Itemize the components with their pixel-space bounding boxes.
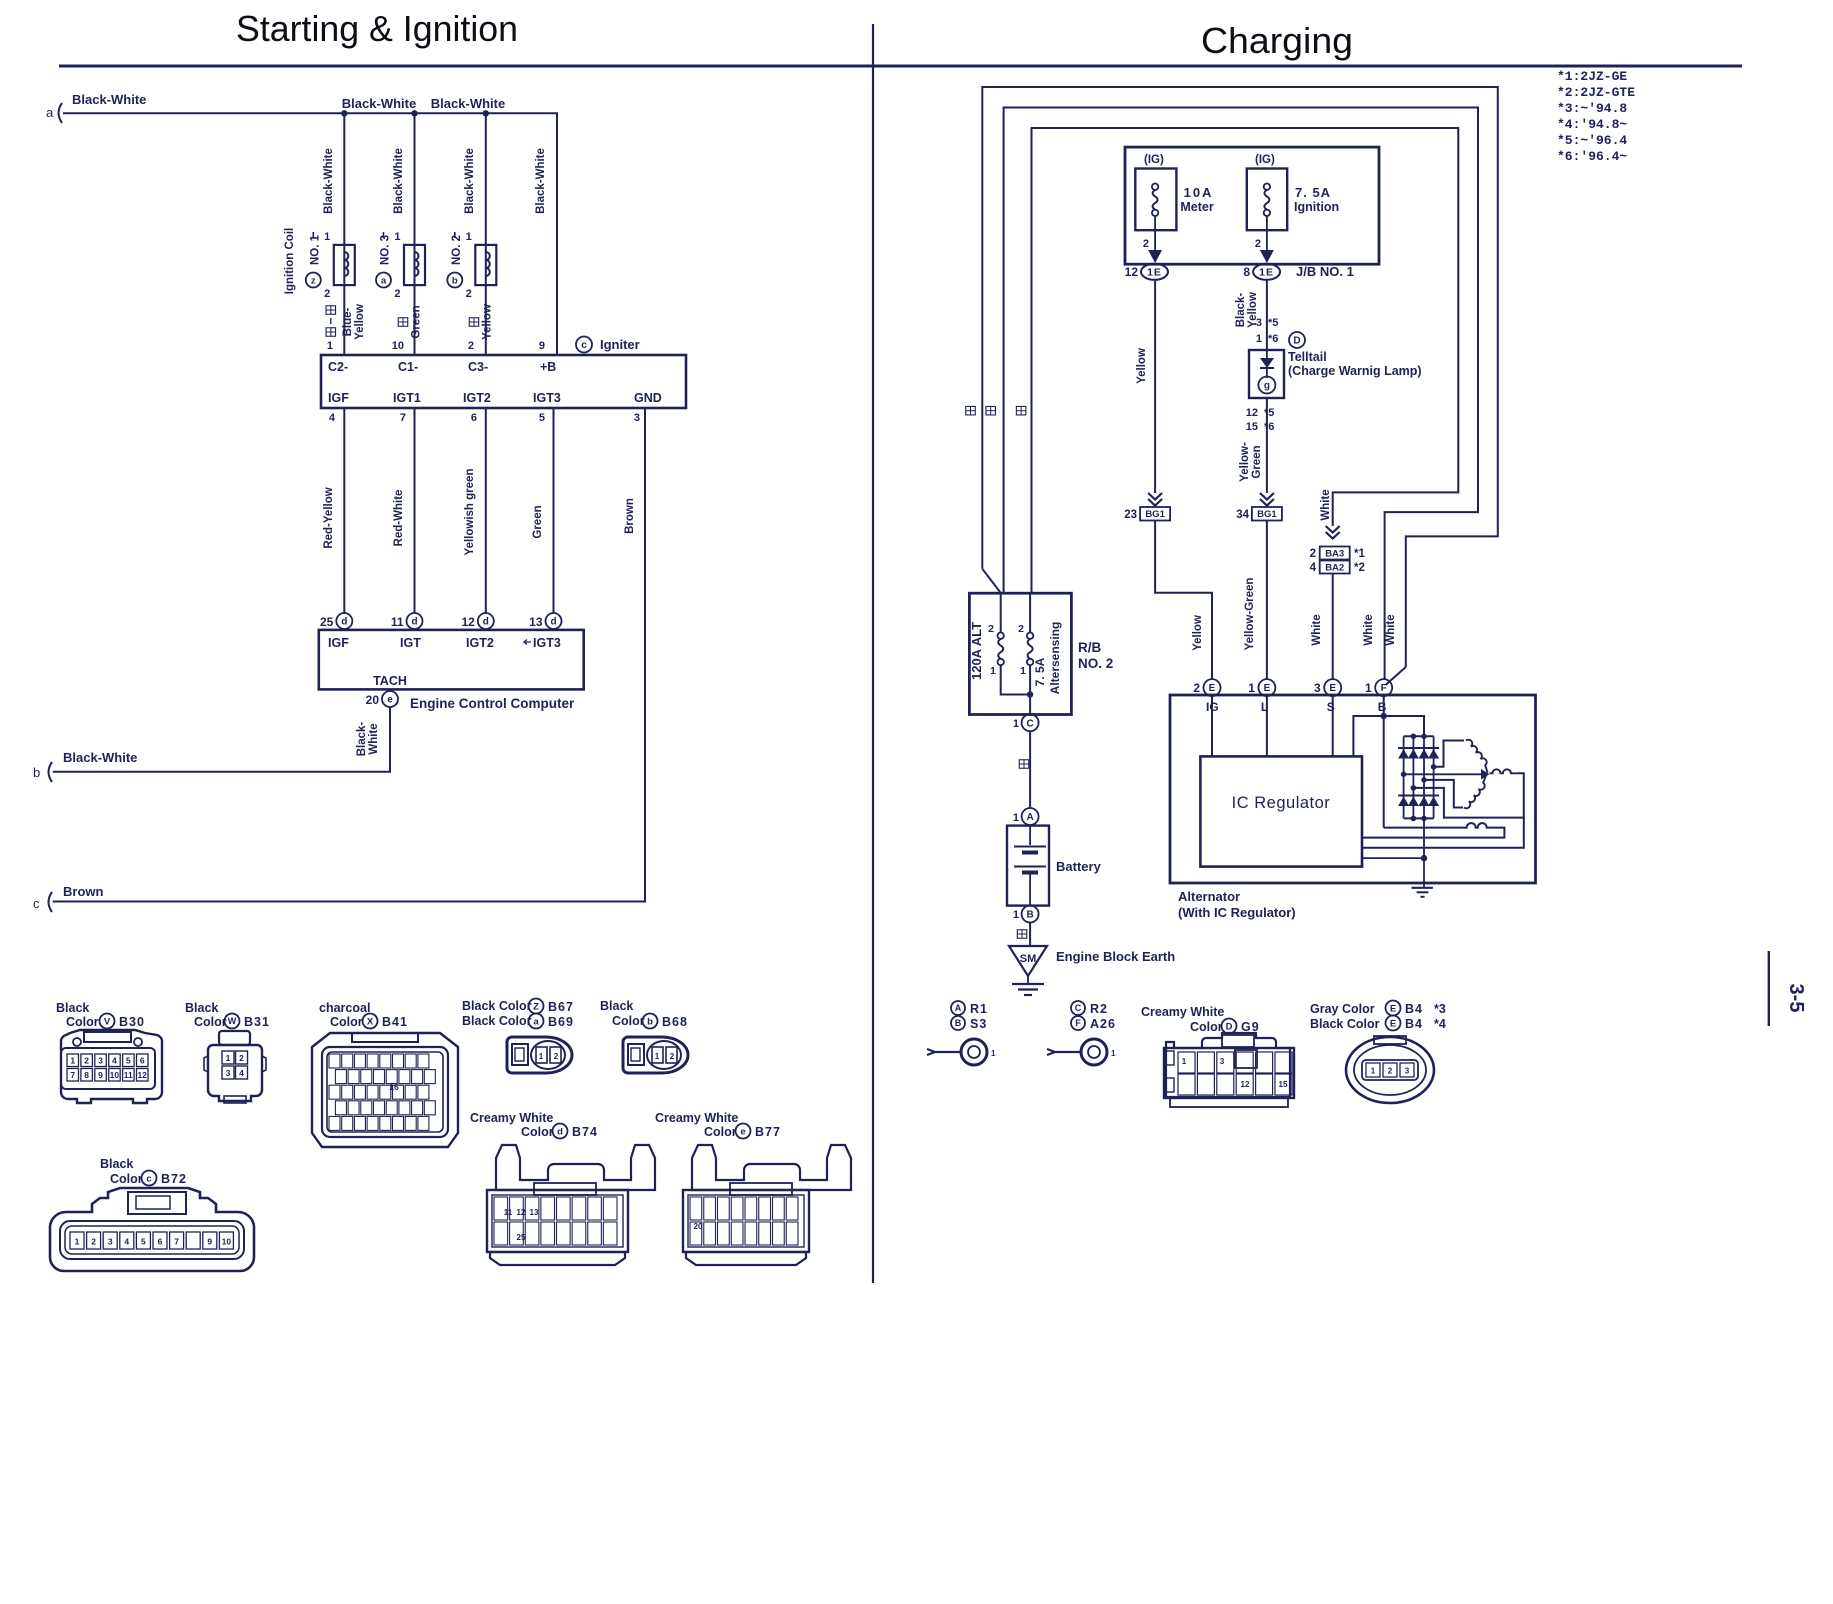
svg-text:E: E bbox=[1329, 683, 1336, 694]
wire bus a bbox=[63, 113, 557, 355]
svg-text:b: b bbox=[33, 765, 40, 780]
junction a1 bbox=[341, 110, 347, 116]
rectifier column 3 bbox=[1423, 736, 1425, 818]
field rotor coil bbox=[1362, 823, 1504, 838]
connector B67/B69 body bbox=[507, 1037, 572, 1073]
svg-text:*5: *5 bbox=[1264, 407, 1274, 419]
svg-text:Ignition Coil: Ignition Coil bbox=[284, 228, 296, 294]
label Black-Yellow bbox=[1235, 292, 1259, 328]
svg-text:3: 3 bbox=[1405, 1067, 1410, 1076]
svg-text:IGT1: IGT1 bbox=[393, 391, 421, 405]
svg-text:2: 2 bbox=[91, 1237, 96, 1247]
junction a2 bbox=[411, 110, 417, 116]
svg-text:E: E bbox=[1390, 1018, 1396, 1029]
svg-text:Yellow: Yellow bbox=[482, 304, 494, 340]
svg-text:1: 1 bbox=[394, 231, 400, 243]
svg-text:b: b bbox=[452, 275, 458, 286]
alternator pin 1F terminal B bbox=[1365, 679, 1392, 714]
svg-text:Brown: Brown bbox=[63, 884, 104, 899]
connector B30 bbox=[61, 1030, 162, 1103]
svg-text:D: D bbox=[1226, 1021, 1233, 1032]
wire B internal bbox=[1383, 696, 1385, 716]
svg-text:Yellow: Yellow bbox=[354, 304, 366, 340]
junction ground bbox=[1421, 855, 1427, 861]
svg-text:1: 1 bbox=[226, 1053, 231, 1063]
svg-text:BG1: BG1 bbox=[1145, 509, 1165, 520]
svg-text:9: 9 bbox=[539, 340, 545, 352]
harness loop inner bbox=[1032, 128, 1459, 593]
stator phase A path bbox=[1434, 741, 1464, 767]
svg-text:Meter: Meter bbox=[1180, 200, 1213, 214]
svg-text:20: 20 bbox=[366, 693, 380, 707]
svg-text:c: c bbox=[146, 1173, 151, 1184]
wire coil1 feed bbox=[343, 113, 345, 355]
svg-text:4: 4 bbox=[329, 412, 336, 424]
igniter pin labels bottom row bbox=[328, 391, 662, 405]
svg-text:1: 1 bbox=[539, 1052, 544, 1061]
connector 4 BA2 *2 bbox=[1310, 561, 1365, 575]
svg-text:2: 2 bbox=[84, 1056, 89, 1066]
kanji black tag 1 bbox=[1019, 760, 1029, 769]
svg-text:Black: Black bbox=[185, 1001, 218, 1015]
connector B4 label bbox=[1310, 1001, 1446, 1032]
svg-text:R/B: R/B bbox=[1078, 640, 1102, 655]
wire jog outer to fuse ALT bbox=[982, 569, 1000, 593]
diode upper 2 bbox=[1408, 748, 1419, 759]
node a bracket bbox=[46, 103, 62, 123]
svg-text:charcoal: charcoal bbox=[319, 1001, 370, 1015]
svg-text:g: g bbox=[1264, 381, 1270, 392]
svg-text:6: 6 bbox=[158, 1237, 163, 1247]
svg-text:12: 12 bbox=[1241, 1080, 1250, 1089]
wire telltail down yellow-green bbox=[1266, 398, 1268, 493]
svg-text:Color: Color bbox=[521, 1125, 554, 1139]
svg-text:Black-White: Black-White bbox=[63, 750, 137, 765]
wire GND brown bbox=[53, 408, 645, 902]
svg-text:10: 10 bbox=[110, 1070, 120, 1080]
label R/B NO. 2 bbox=[1078, 640, 1113, 671]
svg-text:+B: +B bbox=[540, 360, 556, 374]
svg-text:Z: Z bbox=[533, 1001, 539, 1012]
svg-text:z: z bbox=[311, 275, 316, 286]
svg-text:D: D bbox=[1293, 336, 1300, 347]
svg-text:Engine Block Earth: Engine Block Earth bbox=[1056, 949, 1175, 964]
svg-text:d: d bbox=[341, 617, 347, 628]
rectifier column 1 bbox=[1403, 736, 1405, 818]
fuse 7.5A Altersensing bbox=[1018, 593, 1033, 715]
svg-text:R1: R1 bbox=[970, 1002, 988, 1016]
connector B68 label bbox=[600, 999, 688, 1029]
svg-text:11: 11 bbox=[504, 1208, 513, 1217]
svg-text:Color: Color bbox=[1190, 1020, 1223, 1034]
connector 1 C bbox=[1013, 714, 1039, 731]
svg-text:Black Color: Black Color bbox=[462, 999, 532, 1013]
node b bracket bbox=[33, 762, 52, 782]
wire color kanji green bbox=[398, 318, 408, 327]
svg-text:d: d bbox=[483, 617, 489, 628]
IC Regulator box bbox=[1200, 756, 1362, 866]
connector B68 body bbox=[623, 1037, 688, 1073]
diode upper 3 bbox=[1419, 748, 1430, 759]
svg-text:23: 23 bbox=[1124, 509, 1137, 521]
svg-text:X: X bbox=[367, 1016, 374, 1027]
svg-text:7. 5A: 7. 5A bbox=[1033, 657, 1047, 686]
alternator pin 3E terminal S bbox=[1314, 679, 1341, 714]
svg-text:Starting & Ignition: Starting & Ignition bbox=[236, 8, 518, 49]
svg-text:a: a bbox=[381, 275, 387, 286]
connector G9 bbox=[1164, 1033, 1294, 1107]
ring terminal R1/S3 bbox=[927, 1039, 996, 1065]
connector B31 bbox=[204, 1031, 266, 1103]
svg-text:(With IC Regulator): (With IC Regulator) bbox=[1178, 905, 1296, 920]
stator phase C tap bbox=[1411, 785, 1417, 791]
svg-text:F: F bbox=[1075, 1018, 1081, 1028]
svg-text:*3:~'94.8: *3:~'94.8 bbox=[1557, 101, 1627, 116]
svg-text:1E: 1E bbox=[1147, 266, 1162, 278]
svg-text:5: 5 bbox=[126, 1056, 131, 1066]
junction bottom bus 2 bbox=[1411, 816, 1417, 822]
svg-text:4: 4 bbox=[112, 1056, 117, 1066]
coil NO. 1 designator bbox=[306, 232, 322, 288]
svg-text:1: 1 bbox=[327, 340, 333, 352]
svg-text:IC Regulator: IC Regulator bbox=[1232, 794, 1331, 812]
svg-text:1: 1 bbox=[70, 1056, 75, 1066]
svg-text:Altersensing: Altersensing bbox=[1048, 622, 1062, 695]
svg-text:NO. 2: NO. 2 bbox=[1078, 656, 1113, 671]
wire IGT2 bbox=[485, 408, 487, 613]
svg-text:Battery: Battery bbox=[1056, 859, 1102, 874]
svg-text:(IG): (IG) bbox=[1144, 154, 1164, 166]
svg-text:2: 2 bbox=[1310, 548, 1316, 560]
svg-text:E: E bbox=[1390, 1003, 1396, 1014]
connector 2 BA3 *1 bbox=[1310, 526, 1366, 560]
svg-text:2: 2 bbox=[466, 288, 472, 300]
stator neutral arrowhead bbox=[1481, 769, 1490, 780]
alternator pin 1E terminal L bbox=[1248, 679, 1275, 714]
svg-text:B41: B41 bbox=[382, 1015, 408, 1029]
svg-text:*4:'94.8~: *4:'94.8~ bbox=[1557, 117, 1627, 132]
ECU pin labels bbox=[328, 636, 561, 650]
ECU pin 12 connector d bbox=[461, 613, 493, 629]
wire outer diagonal to F bbox=[1386, 667, 1406, 685]
svg-text:1: 1 bbox=[1013, 718, 1019, 730]
svg-text:(Charge Warnig Lamp): (Charge Warnig Lamp) bbox=[1288, 364, 1422, 378]
svg-text:1: 1 bbox=[1020, 665, 1026, 677]
svg-text:Charging: Charging bbox=[1201, 20, 1353, 61]
connector B30 label bbox=[56, 1001, 145, 1029]
svg-text:R2: R2 bbox=[1090, 1002, 1108, 1016]
svg-text:Red-White: Red-White bbox=[393, 490, 405, 547]
svg-text:B30: B30 bbox=[119, 1015, 145, 1029]
alternator box bbox=[1170, 695, 1536, 883]
wire C to A black bbox=[1029, 731, 1031, 808]
svg-text:J/B NO. 1: J/B NO. 1 bbox=[1296, 264, 1354, 279]
connector B67 B69 label bbox=[462, 999, 574, 1030]
svg-text:3: 3 bbox=[108, 1237, 113, 1247]
svg-text:9: 9 bbox=[98, 1070, 103, 1080]
svg-text:25: 25 bbox=[320, 615, 334, 629]
wire IGF bbox=[343, 408, 345, 613]
svg-text:Green: Green bbox=[411, 305, 423, 338]
svg-text:Yellowish green: Yellowish green bbox=[464, 469, 476, 556]
svg-text:NO. 3: NO. 3 bbox=[380, 235, 392, 265]
svg-text:34: 34 bbox=[1236, 509, 1249, 521]
svg-text:2: 2 bbox=[394, 288, 400, 300]
wire L internal bbox=[1266, 696, 1268, 756]
label Yellow-Green upper bbox=[1239, 442, 1263, 482]
svg-text:3: 3 bbox=[98, 1056, 103, 1066]
svg-text:3: 3 bbox=[1256, 317, 1262, 329]
fuse 10A Meter bbox=[1135, 154, 1214, 263]
wire IGT1 bbox=[414, 408, 416, 613]
svg-text:8: 8 bbox=[1243, 265, 1250, 279]
svg-text:1: 1 bbox=[1371, 1067, 1376, 1076]
svg-text:Black-White: Black-White bbox=[72, 92, 146, 107]
svg-text:IGT2: IGT2 bbox=[463, 391, 491, 405]
svg-text:e: e bbox=[387, 695, 393, 706]
svg-text:13: 13 bbox=[529, 615, 543, 629]
svg-text:BA3: BA3 bbox=[1325, 548, 1344, 559]
coil NO. 2 designator bbox=[447, 232, 463, 288]
fuse 7.5A Ignition bbox=[1247, 154, 1339, 263]
svg-text:GND: GND bbox=[634, 391, 662, 405]
connector B72 bbox=[50, 1188, 254, 1271]
rectifier top bus bbox=[1404, 735, 1434, 737]
svg-text:d: d bbox=[550, 617, 556, 628]
svg-text:B: B bbox=[955, 1018, 962, 1028]
telltail charge warning lamp bbox=[1249, 350, 1284, 398]
svg-text:*1: *1 bbox=[1354, 548, 1365, 560]
ring terminal R2/A26 bbox=[1047, 1039, 1116, 1065]
svg-text:B4: B4 bbox=[1405, 1002, 1423, 1016]
junction a3 bbox=[483, 110, 489, 116]
junction top bus 2 bbox=[1411, 734, 1417, 740]
svg-text:c: c bbox=[581, 340, 587, 351]
svg-text:1: 1 bbox=[1013, 909, 1019, 921]
svg-text:15: 15 bbox=[1246, 421, 1258, 433]
stator phase A tap bbox=[1431, 764, 1437, 770]
ECU pin 25 connector d bbox=[320, 613, 352, 629]
svg-text:e: e bbox=[740, 1126, 745, 1137]
svg-text:25: 25 bbox=[517, 1233, 526, 1242]
svg-text:White: White bbox=[1385, 614, 1397, 645]
stator coil phase C bbox=[1490, 769, 1518, 773]
svg-text:15: 15 bbox=[1279, 1080, 1288, 1089]
harness loop outer bbox=[982, 87, 1498, 667]
svg-text:1: 1 bbox=[1256, 333, 1262, 345]
svg-text:12: 12 bbox=[1246, 407, 1258, 419]
rectifier bottom bus bbox=[1404, 817, 1434, 819]
svg-text:120A ALT: 120A ALT bbox=[969, 622, 984, 680]
svg-text:2: 2 bbox=[239, 1053, 244, 1063]
svg-text:10A: 10A bbox=[1184, 185, 1214, 200]
svg-text:9: 9 bbox=[207, 1237, 212, 1247]
svg-text:SM: SM bbox=[1020, 953, 1037, 965]
svg-text:Color: Color bbox=[66, 1015, 99, 1029]
connector B72 label bbox=[100, 1157, 187, 1186]
connector 34 BG1 bbox=[1236, 493, 1282, 521]
svg-text:b: b bbox=[647, 1016, 653, 1027]
svg-text:Black: Black bbox=[100, 1157, 133, 1171]
svg-text:A26: A26 bbox=[1090, 1017, 1116, 1031]
svg-text:1: 1 bbox=[1248, 681, 1255, 695]
svg-text:Color: Color bbox=[330, 1015, 363, 1029]
ground symbol engine earth bbox=[1012, 976, 1044, 995]
svg-text:B: B bbox=[1378, 700, 1387, 714]
svg-text:2: 2 bbox=[1018, 623, 1024, 635]
kanji white tags on harness bbox=[966, 406, 1026, 415]
svg-text:12: 12 bbox=[1125, 265, 1139, 279]
label Black-White vertical at b bbox=[356, 722, 380, 757]
wire meter yellow bbox=[1154, 280, 1156, 493]
svg-text:3: 3 bbox=[1314, 681, 1321, 695]
svg-text:White: White bbox=[1320, 489, 1332, 520]
svg-text:d: d bbox=[557, 1126, 563, 1137]
svg-text:IGF: IGF bbox=[328, 636, 349, 650]
connector G9 label bbox=[1141, 1005, 1260, 1034]
svg-text:1: 1 bbox=[1182, 1057, 1187, 1066]
svg-text:*3: *3 bbox=[1434, 1002, 1446, 1016]
svg-text:White: White bbox=[1311, 614, 1323, 645]
svg-text:2: 2 bbox=[670, 1052, 675, 1061]
svg-text:1: 1 bbox=[655, 1052, 660, 1061]
connector 23 BG1 bbox=[1124, 493, 1170, 521]
svg-text:10: 10 bbox=[222, 1237, 232, 1247]
junction top bus 3 bbox=[1421, 734, 1427, 740]
wire S internal bbox=[1332, 696, 1334, 756]
engine block earth triangle SM bbox=[1009, 946, 1047, 976]
svg-text:2: 2 bbox=[1143, 238, 1149, 250]
ignition coil NO. 2 (connector b) bbox=[475, 245, 496, 285]
wire coil2 feed bbox=[414, 113, 416, 355]
igniter U1 box bbox=[321, 355, 686, 408]
connector B77 bbox=[683, 1145, 851, 1265]
svg-text:13: 13 bbox=[530, 1208, 539, 1217]
svg-text:Black Color: Black Color bbox=[462, 1014, 532, 1028]
svg-text:12: 12 bbox=[461, 615, 475, 629]
svg-text:B72: B72 bbox=[161, 1172, 187, 1186]
svg-text:F: F bbox=[1381, 683, 1387, 694]
junction B bbox=[1381, 713, 1387, 719]
diode lower 3 bbox=[1419, 796, 1430, 807]
svg-text:B69: B69 bbox=[548, 1015, 574, 1029]
ECU box Engine Control Computer bbox=[319, 630, 584, 690]
svg-text:S3: S3 bbox=[970, 1017, 987, 1031]
svg-text:2: 2 bbox=[554, 1052, 559, 1061]
svg-text:2: 2 bbox=[1193, 681, 1200, 695]
svg-text:Black Color: Black Color bbox=[1310, 1017, 1380, 1031]
svg-text:4: 4 bbox=[124, 1237, 129, 1247]
svg-text:2: 2 bbox=[468, 340, 474, 352]
svg-text:E: E bbox=[1209, 683, 1216, 694]
svg-text:Creamy White: Creamy White bbox=[655, 1111, 738, 1125]
svg-text:E: E bbox=[1264, 683, 1271, 694]
svg-text:*2: *2 bbox=[1354, 562, 1365, 574]
telltail pin 12 *5 bbox=[1246, 407, 1275, 419]
svg-text:a: a bbox=[46, 105, 54, 120]
telltail pin 3 *5 bbox=[1256, 317, 1279, 329]
ring terminal C R2 F A26 label bbox=[1071, 1001, 1116, 1031]
svg-text:*6: *6 bbox=[1264, 421, 1274, 433]
svg-text:10: 10 bbox=[392, 340, 404, 352]
svg-text:B: B bbox=[1026, 910, 1033, 921]
wire BG1 to alternator L bbox=[1266, 521, 1268, 680]
svg-text:Telltail: Telltail bbox=[1288, 350, 1327, 364]
connector B4 bbox=[1346, 1036, 1434, 1103]
top rule bbox=[59, 65, 1742, 68]
svg-text:NO. 2: NO. 2 bbox=[451, 235, 463, 265]
ignition coil NO. 3 (connector a) bbox=[404, 245, 425, 285]
telltail designator D bbox=[1289, 332, 1305, 348]
connector 12(1E) bbox=[1125, 264, 1168, 280]
svg-text:1: 1 bbox=[75, 1237, 80, 1247]
diode upper 4 bbox=[1428, 748, 1439, 759]
wire color kanji yellow bbox=[469, 318, 479, 327]
connector 1 A bbox=[1013, 808, 1039, 825]
sense wire to regulator bbox=[1362, 818, 1524, 848]
fuse 120A ALT bbox=[988, 593, 1030, 695]
svg-text:Color: Color bbox=[194, 1015, 227, 1029]
svg-text:16: 16 bbox=[389, 1082, 399, 1092]
svg-text:2: 2 bbox=[1255, 238, 1261, 250]
note block engine codes bbox=[1557, 69, 1635, 164]
junction bottom bus 3 bbox=[1421, 816, 1427, 822]
svg-text:Black-: Black- bbox=[356, 722, 368, 757]
svg-text:5: 5 bbox=[539, 412, 545, 424]
svg-text:Alternator: Alternator bbox=[1178, 889, 1240, 904]
connector B77 label bbox=[655, 1111, 781, 1139]
svg-text:2: 2 bbox=[1388, 1067, 1393, 1076]
svg-text:*6: *6 bbox=[1268, 333, 1278, 345]
svg-text:C: C bbox=[1075, 1003, 1082, 1013]
svg-text:7: 7 bbox=[400, 412, 406, 424]
kanji black tag 2 bbox=[1017, 930, 1027, 939]
svg-text:d: d bbox=[411, 617, 417, 628]
svg-text:B68: B68 bbox=[662, 1015, 688, 1029]
ground symbol alternator bbox=[1412, 888, 1433, 897]
battery bbox=[1007, 826, 1049, 906]
wire BG1 to alternator IG bbox=[1155, 521, 1212, 680]
svg-text:Engine Control Computer: Engine Control Computer bbox=[410, 696, 575, 711]
telltail pin 15 *6 bbox=[1246, 421, 1275, 433]
svg-text:IGT: IGT bbox=[400, 636, 421, 650]
junction neutral left bbox=[1401, 772, 1407, 778]
svg-text:Brown: Brown bbox=[624, 498, 636, 534]
svg-text:A: A bbox=[1026, 812, 1033, 823]
relay box R/B NO.2 bbox=[969, 593, 1071, 714]
svg-text:IGF: IGF bbox=[328, 391, 349, 405]
ECU pin 20 connector e bbox=[366, 691, 398, 707]
svg-text:3: 3 bbox=[634, 412, 640, 424]
svg-text:Red-Yellow: Red-Yellow bbox=[323, 487, 335, 548]
svg-text:White: White bbox=[1363, 614, 1375, 645]
ECU pin 11 connector d bbox=[391, 613, 423, 629]
svg-text:4: 4 bbox=[239, 1068, 244, 1078]
stator phase C path bbox=[1413, 773, 1523, 817]
wire ignition black-yellow bbox=[1266, 280, 1268, 350]
svg-text:*6:'96.4~: *6:'96.4~ bbox=[1557, 149, 1627, 164]
diode upper 1 bbox=[1398, 748, 1409, 759]
svg-text:Igniter: Igniter bbox=[600, 337, 640, 352]
coil NO. 3 designator bbox=[376, 232, 392, 288]
connector B74 bbox=[487, 1145, 655, 1265]
svg-text:6: 6 bbox=[471, 412, 477, 424]
svg-text:Creamy White: Creamy White bbox=[470, 1111, 553, 1125]
svg-text:Ignition: Ignition bbox=[1294, 200, 1339, 214]
svg-text:B67: B67 bbox=[548, 1000, 574, 1014]
svg-text:IGT3: IGT3 bbox=[533, 391, 561, 405]
svg-text:1: 1 bbox=[466, 231, 472, 243]
